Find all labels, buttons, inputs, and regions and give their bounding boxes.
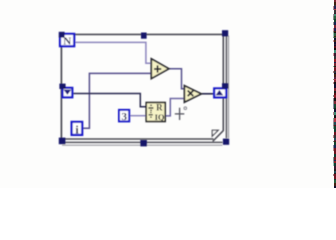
svg-text:3: 3 <box>121 111 127 123</box>
left shift register <box>63 88 73 97</box>
N count terminal <box>60 34 74 47</box>
mouse crosshair cursor <box>175 108 185 120</box>
selection handle left-middle <box>59 84 65 89</box>
numeric constant 3 <box>119 110 129 123</box>
for-loop right border shadow line <box>228 36 230 139</box>
svg-text:R: R <box>156 102 163 112</box>
dog-ear corner diagonal <box>213 130 224 141</box>
for-loop bottom border outer line <box>62 141 223 143</box>
wire from quotient output IQ to multiply lower input <box>165 99 184 116</box>
for-loop left border <box>60 34 62 142</box>
for-loop top border <box>61 33 228 35</box>
selection handle top-middle <box>141 33 147 39</box>
dog-ear corner flap <box>212 130 218 136</box>
wire from i terminal to add lower input <box>83 73 151 128</box>
selection handle right-middle <box>222 83 228 88</box>
for-loop right border outer line <box>225 35 227 138</box>
selection handle top-left <box>59 32 65 38</box>
wire from left shift register to quotient-remainder x input <box>73 94 146 107</box>
i iteration terminal <box>72 122 83 136</box>
selection handle bottom-left <box>59 138 66 145</box>
selection handle top-right <box>222 30 228 36</box>
right shift register <box>214 88 226 97</box>
cursor circle mark <box>184 107 187 110</box>
add function U1 <box>151 59 169 79</box>
for-loop right border inner line <box>222 35 224 131</box>
selection handle bottom-right <box>223 139 229 145</box>
multiply function U2 <box>184 86 201 103</box>
for-loop bottom border shadow line <box>62 144 223 146</box>
selection handle bottom-middle <box>140 140 147 146</box>
wire from N terminal to add upper input <box>74 42 151 63</box>
video noise column at right edge <box>333 0 336 189</box>
wire from multiply output to right shift register <box>201 93 213 95</box>
svg-text:IQ: IQ <box>155 112 165 122</box>
quotient and remainder function U3 <box>146 102 165 122</box>
for-loop bottom border inner line <box>62 138 214 140</box>
wire from add output to multiply upper input <box>169 69 185 89</box>
wire from constant 3 to quotient-remainder y input <box>130 115 146 117</box>
